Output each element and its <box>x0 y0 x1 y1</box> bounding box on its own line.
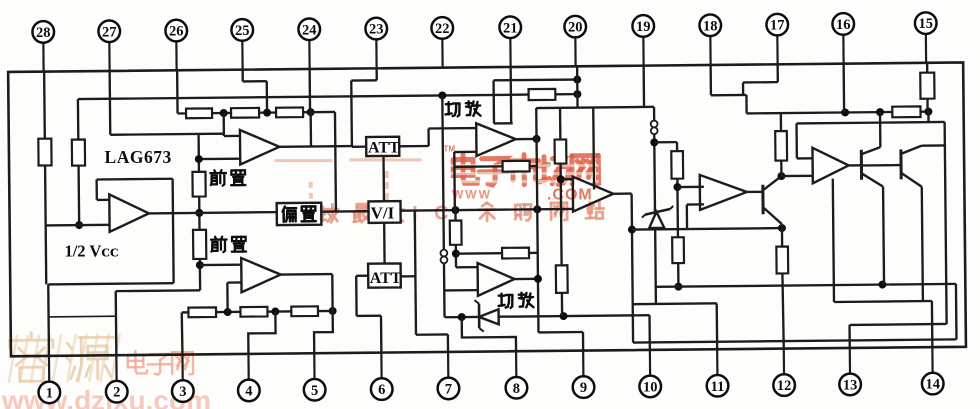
svg-text:WWW: WWW <box>452 187 492 201</box>
svg-text:11: 11 <box>711 379 725 395</box>
svg-text:1/2 Vᴄᴄ: 1/2 Vᴄᴄ <box>64 242 118 261</box>
svg-text:22: 22 <box>435 21 450 37</box>
svg-text:24: 24 <box>302 22 317 38</box>
svg-text:17: 17 <box>770 18 785 34</box>
svg-text:28: 28 <box>36 25 51 41</box>
svg-text:18: 18 <box>703 18 718 34</box>
svg-text:8: 8 <box>513 381 520 397</box>
svg-text:12: 12 <box>777 378 792 394</box>
svg-text:15: 15 <box>918 16 933 32</box>
svg-text:3: 3 <box>179 384 186 400</box>
svg-text:C: C <box>434 203 448 225</box>
svg-text:19: 19 <box>636 19 651 35</box>
svg-text:13: 13 <box>843 377 858 393</box>
svg-text:7: 7 <box>445 381 452 397</box>
svg-text:9: 9 <box>580 380 587 396</box>
svg-text:ATT: ATT <box>368 140 400 157</box>
svg-text:16: 16 <box>836 17 851 33</box>
svg-text:.COM: .COM <box>547 186 593 203</box>
svg-text:LAG673: LAG673 <box>105 147 172 167</box>
svg-text:27: 27 <box>102 24 117 40</box>
svg-text:14: 14 <box>925 377 940 393</box>
svg-text:10: 10 <box>643 379 658 395</box>
svg-text:1: 1 <box>46 385 53 401</box>
svg-text:23: 23 <box>369 22 384 38</box>
svg-text:ATT: ATT <box>370 270 402 287</box>
svg-text:V/I: V/I <box>371 204 395 223</box>
svg-text:26: 26 <box>169 24 184 40</box>
svg-text:6: 6 <box>378 382 385 398</box>
svg-text:5: 5 <box>311 383 318 399</box>
svg-text:20: 20 <box>568 20 583 36</box>
svg-text:4: 4 <box>245 383 252 399</box>
svg-text:25: 25 <box>235 23 250 39</box>
svg-text:21: 21 <box>503 20 518 36</box>
svg-text:2: 2 <box>113 385 120 401</box>
